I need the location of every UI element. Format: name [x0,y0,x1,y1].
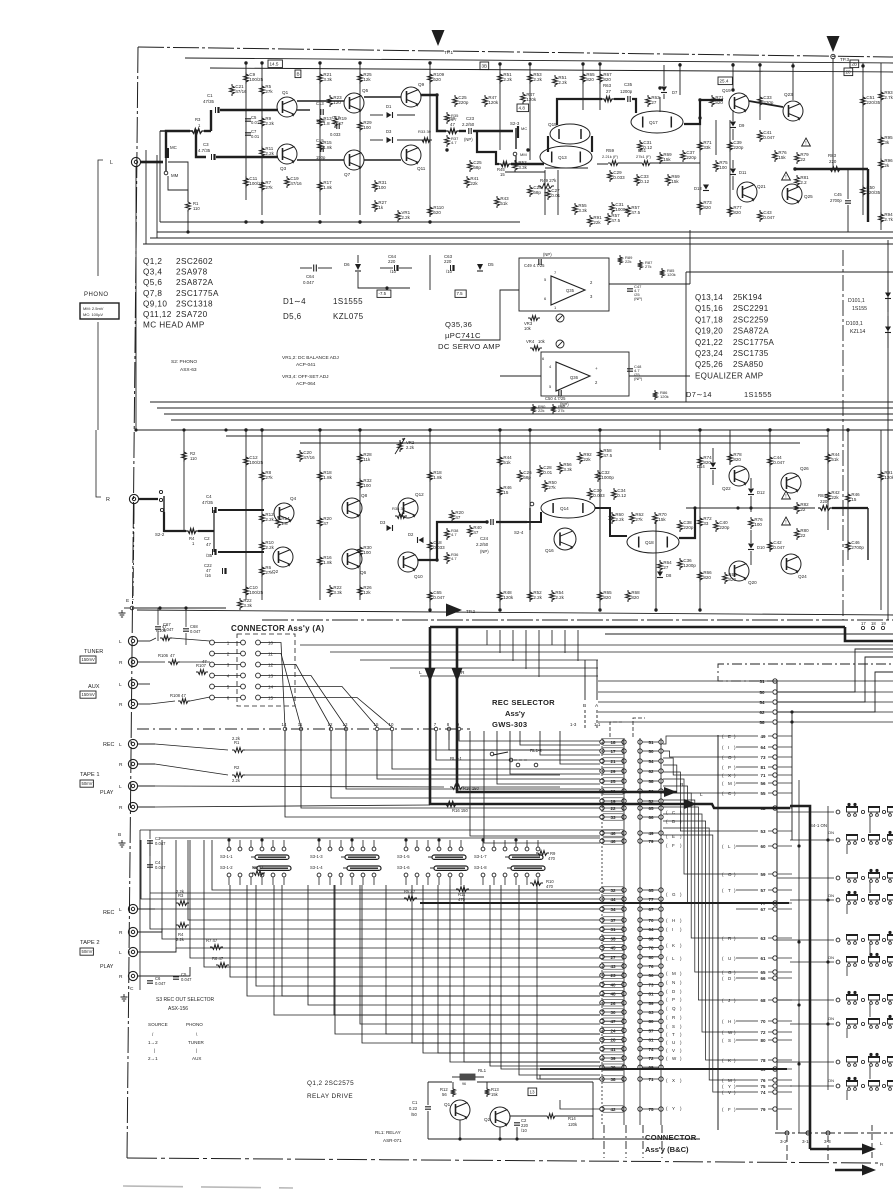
test point TP.1 arrow [432,30,454,55]
svg-text:15: 15 [503,490,509,495]
svg-text:46: 46 [610,831,616,836]
svg-text:S3-1-5: S3-1-5 [397,854,410,859]
assembly box verticals [718,680,777,1130]
resistor R88 [551,404,567,414]
strip C row 64 [722,745,792,750]
text connector B&C [645,1133,697,1154]
capacitor C17 [330,115,341,137]
wire tick to connector row [285,731,600,817]
svg-text:0.22: 0.22 [409,1106,418,1111]
transistor Q26 [781,466,809,493]
text D101 right [848,280,891,312]
diode D11 [730,160,747,190]
svg-text:R16 150: R16 150 [452,808,469,813]
resistor C26 [518,470,533,482]
resistor R11 470 [456,887,469,902]
svg-text:2.7k: 2.7k [884,95,893,100]
strip C row 66 [722,976,792,981]
transistor Q20 [729,561,757,585]
svg-text:100: 100 [378,185,386,190]
switch array row y1000 [836,991,893,1004]
wire [655,520,657,610]
svg-text:Q35,36: Q35,36 [445,320,472,329]
warning triangle mid 1 [782,491,791,500]
resistor R84 inline [818,493,832,510]
ground C [121,986,135,1001]
svg-text:62: 62 [648,769,654,774]
svg-text:50: 50 [759,690,765,695]
capacitor C23 [459,116,475,142]
svg-text:21: 21 [610,759,616,764]
svg-text:D3: D3 [380,520,386,525]
label TUNER [84,649,103,655]
label REC 2 [103,910,114,916]
wire long return [150,401,893,403]
dashed row 729 [137,728,470,730]
svg-text:18: 18 [610,740,616,745]
svg-text:ACP-041: ACP-041 [296,362,316,368]
wire return 649 [777,649,893,692]
resistor R46 [498,485,513,497]
svg-text:R: R [106,497,110,503]
svg-text:19: 19 [610,799,616,804]
connector B pin row 20/53 [600,788,663,794]
svg-text:15k: 15k [671,179,679,184]
svg-text:C64: C64 [306,274,315,279]
chain line TP2 [262,619,893,621]
svg-text:K: K [672,943,675,948]
svg-text:Q19: Q19 [722,88,731,93]
wire thick R drop [457,627,677,792]
text block MC head amp device list [143,257,219,330]
resistor R4 inline [186,529,198,546]
svg-text:7.5: 7.5 [457,291,464,296]
svg-text:29: 29 [610,769,616,774]
svg-text:51k: 51k [831,457,839,462]
svg-text:D2: D2 [408,532,414,537]
wire [862,63,864,215]
capacitor C7 [245,129,260,139]
svg-text:S2-2: S2-2 [155,532,165,537]
resistor R11 [260,146,275,158]
svg-text:3.3k: 3.3k [563,467,572,472]
wire switch to connector row [386,885,600,1034]
wire switch to connector row [150,840,600,929]
wire servo pos rail [429,255,431,290]
wire play L run [155,786,560,787]
connector A dashed box [237,634,295,706]
wire [297,100,344,102]
svg-text:!: ! [805,141,806,147]
wire [297,109,310,111]
svg-text:(NP): (NP) [480,549,489,554]
resistor C65 [428,590,446,602]
svg-text:71: 71 [760,773,766,778]
capacitor C6f [147,976,166,986]
wire [499,63,501,150]
resistor R48 [498,590,514,602]
svg-text:V: V [672,1048,675,1053]
diode D3b [380,520,393,531]
resistor R3 inline [190,117,204,133]
svg-text:R106: R106 [158,653,169,658]
svg-text:Q17,18: Q17,18 [695,315,723,324]
svg-text:27k: 27k [635,517,643,522]
resistor C33b [758,95,774,107]
wire tape2 links [138,909,190,976]
svg-text:Q6: Q6 [360,570,367,575]
svg-text:C45: C45 [834,192,842,197]
junction [698,608,701,611]
resistor R2f [155,764,560,783]
warning triangle mid 2 [782,517,791,526]
resistor R10 [260,540,275,552]
wire thick bus 52 [697,804,790,808]
wire strip link [663,800,736,972]
svg-text:RL1: RL1 [478,1068,487,1073]
resistor R53b [513,160,528,172]
svg-text:70: 70 [648,918,654,923]
junction [435,558,438,561]
strip letter U [666,1040,682,1045]
warning triangle top 2 [782,172,791,181]
capacitor C5 [245,115,260,125]
transistor Q11 [401,145,426,171]
svg-text:D14: D14 [697,464,705,469]
svg-text:100: 100 [363,125,371,130]
connector B pin row 29/62 [600,768,663,774]
svg-text:R63: R63 [603,83,612,88]
resistor R75 [714,160,729,172]
resistor R108 [150,693,210,704]
capacitor C5f [173,972,192,982]
wire play R run [155,804,540,807]
svg-text:0.01: 0.01 [251,120,260,125]
strip P row 51 [598,679,893,684]
svg-text:Q36: Q36 [570,375,579,380]
wire [729,430,731,465]
resistor R12 relay [440,1087,455,1097]
pot VR2 [395,438,415,454]
transistor Q1 [277,90,297,117]
strip C row 68 [722,998,792,1003]
phono jack R [96,430,139,504]
svg-text:0.047: 0.047 [303,280,315,285]
wire long run mid [420,675,598,677]
svg-text:2.2k: 2.2k [265,545,274,550]
resistor C10 [244,585,264,597]
arrow R mid [452,668,466,682]
wire jack R to switch S2-2 [139,498,158,500]
strip letter F [666,843,682,848]
resistor C20 [298,450,316,462]
resistor R16c [444,802,469,813]
svg-text:VR4: VR4 [526,339,535,344]
wire equalizer frame top [686,271,893,273]
svg-text:820: 820 [703,205,711,210]
svg-text:S3-1-4: S3-1-4 [310,865,323,870]
svg-text:3-2: 3-2 [780,1139,787,1144]
svg-text:S: S [728,1038,731,1043]
strip letter V [666,1048,682,1053]
wire switch to connector row [256,885,600,986]
resistor R47b [483,95,499,107]
resistor R5f [404,889,417,900]
wire [729,120,731,215]
svg-text:2.2k: 2.2k [265,517,274,522]
svg-text:2.2k: 2.2k [232,778,241,783]
svg-text:R: R [119,762,123,768]
svg-text:150mV: 150mV [82,692,95,697]
svg-text:1-1: 1-1 [594,722,601,727]
svg-text:1.8k: 1.8k [323,560,332,565]
junction [698,428,701,431]
strip C row 77 [736,901,792,906]
connector B pin row 24/57 [600,1027,663,1033]
resistor R8f [212,956,229,967]
diode D2 [408,532,424,543]
svg-text:P: P [672,997,675,1002]
arrow L mid [419,668,436,682]
svg-text:Q7,8: Q7,8 [143,289,162,298]
junction [793,167,796,170]
capacitor C22 [204,563,227,578]
transistor Q12 [398,492,424,518]
connector B col rail 4 [660,738,662,1125]
svg-text:Q3: Q3 [280,166,287,171]
svg-text:2SC2259: 2SC2259 [733,315,769,324]
svg-text:71: 71 [648,1077,654,1082]
svg-text:120k: 120k [503,595,514,600]
resistor R7 [260,180,274,192]
resistor C34 [612,488,627,500]
svg-text:51: 51 [648,740,654,745]
resistor R21 [318,72,333,84]
capacitor C2 relay [514,1118,529,1133]
svg-text:41: 41 [610,1047,616,1052]
relay contact RL1-1 [450,752,528,762]
wire tick to connector row [436,731,600,760]
diode D12 [748,478,765,512]
resistor R4f [176,923,189,942]
svg-text:C50 4.7/25: C50 4.7/25 [545,396,566,401]
svg-text:3.3k: 3.3k [243,603,252,608]
junction [260,220,263,223]
svg-text:X: X [672,1078,675,1083]
svg-text:Q11: Q11 [417,166,426,171]
svg-text:H: H [728,1019,731,1024]
svg-text:U: U [728,956,731,961]
pot VR4 [526,339,564,350]
switch array row y1024 [836,1015,893,1029]
svg-text:61: 61 [760,956,766,961]
svg-text:60: 60 [648,955,654,960]
resistor R65b [598,590,613,602]
wire thick output R83 [793,167,868,170]
diode D7 [661,65,678,99]
resistor R38 [445,528,460,540]
pot VR3 [524,314,564,331]
wire vertical drop right [564,630,566,653]
wire [659,97,661,112]
transistor Q1 relay [444,1100,470,1120]
svg-text:47: 47 [202,659,207,664]
resistor R91 [879,470,893,482]
svg-text:24: 24 [610,1028,616,1033]
strip letter I [666,927,682,932]
strip letter R [666,1015,682,1020]
transistor Q3 [277,144,297,171]
resistor R76b [773,150,788,162]
relay contact RL1-2 [516,748,542,767]
capacitor C64e [380,254,412,274]
wire thick phono R path [139,499,186,531]
wire [364,159,401,161]
wire switch to connector row [212,840,600,890]
svg-text:Q1: Q1 [282,90,289,95]
strip letter D [666,819,682,824]
svg-text:Q25,26: Q25,26 [695,360,723,369]
resistor R89 [618,255,634,265]
wire thick C24 to S2-4 [496,521,527,523]
svg-text:MC: 100µV: MC: 100µV [83,312,103,317]
wire [529,430,531,600]
wire switch pin drop [501,885,600,1069]
transistor Q5 [344,88,369,113]
wire switch to connector row [176,840,600,948]
svg-text:R84: R84 [818,493,827,498]
wire jack L to MC switch [141,161,163,163]
svg-text:Q9,10: Q9,10 [143,299,167,308]
svg-text:C1: C1 [412,1100,418,1105]
connector A pin row 4 [210,673,276,678]
svg-text:22: 22 [800,157,806,162]
resistor R78 [728,452,743,464]
svg-text:S3-1-6: S3-1-6 [397,865,410,870]
svg-text:ASR-071: ASR-071 [383,1138,402,1143]
rail bottom 225 [160,221,520,223]
wire upper run [560,731,600,764]
svg-text:Q15,16: Q15,16 [695,304,723,313]
resistor C28 [538,465,553,477]
resistor R62 [630,512,645,524]
svg-text:27k: 27k [548,485,556,490]
switch S2-4 [514,502,534,535]
junction [698,98,701,101]
wire switch pin drop [247,885,600,996]
text source table [148,1022,205,1061]
svg-text:57: 57 [760,888,766,893]
resistor R72 [698,516,713,528]
resistor C30 [588,488,606,500]
svg-text:73: 73 [760,755,766,760]
svg-text:2.2k: 2.2k [265,151,274,156]
junction [528,428,531,431]
svg-text:2.2/50: 2.2/50 [476,542,489,547]
page edge mark bottom [123,1186,293,1188]
svg-text:74: 74 [648,1047,654,1052]
svg-text:23: 23 [610,973,616,978]
wire thick output2 [832,508,868,560]
svg-text:12k: 12k [363,590,371,595]
svg-text:PHONO: PHONO [84,292,109,298]
svg-text:10k: 10k [524,326,532,331]
strip letter G [666,892,682,897]
strip letter X [666,1078,682,1083]
svg-text:33k: 33k [703,145,711,150]
svg-text:S3-1-2: S3-1-2 [220,865,233,870]
svg-text:68p: 68p [473,165,481,170]
svg-text:D13: D13 [694,186,702,191]
wire connector A fan [276,643,285,728]
svg-text:22k: 22k [470,181,478,186]
svg-text:120k: 120k [667,272,676,277]
box 7.5 [455,290,466,297]
jack tape2 L [119,904,155,913]
wire switch pin drop [423,885,600,1053]
wire jack R stub [133,504,135,514]
svg-text:620: 620 [433,210,441,215]
svg-text:28: 28 [846,69,852,74]
wire long run mid [360,659,598,661]
resistor R91 [588,215,603,227]
wire [599,430,601,610]
transistor Q10 [398,552,423,579]
svg-text:R83: R83 [828,153,837,158]
svg-text:3-1: 3-1 [802,1139,809,1144]
svg-text:D1: D1 [386,104,392,109]
svg-text:2.7k: 2.7k [884,217,893,222]
resistor R60 [610,512,625,524]
wire TP3 drop [832,59,834,169]
diode D1 [370,104,415,118]
switch S2-1 MC contact [164,145,178,178]
svg-text:50mV: 50mV [82,949,93,954]
wire gap vertical 1 [145,150,147,244]
capacitor C68 [183,608,201,645]
resistor C29 [608,170,626,182]
svg-text:1200p: 1200p [683,563,696,568]
labels 3-2 3-1 3-3 [780,1139,831,1144]
connector B pin row 31/64 [600,926,663,932]
svg-text:49: 49 [648,831,654,836]
strip letter P [666,997,682,1002]
svg-text:2.2k: 2.2k [401,215,410,220]
svg-text:3.3k: 3.3k [578,208,587,213]
svg-text:2.2k: 2.2k [232,736,241,741]
wire thick L drop [430,627,697,804]
resistor R5 [260,84,274,96]
wire [880,430,882,610]
strip C row 74 [722,1090,792,1095]
svg-text:AUX: AUX [88,684,100,690]
svg-text:120k: 120k [526,97,537,102]
svg-text:820: 820 [603,595,611,600]
svg-text:+: + [595,366,598,371]
svg-text:220: 220 [820,499,828,504]
resistor R22b [238,598,253,610]
svg-text:53: 53 [648,789,654,794]
resistor R69 [666,174,681,186]
wire horizontal return 1 [157,230,893,233]
connector A pin row 3 [210,662,276,667]
svg-text:47/35: 47/35 [202,500,214,505]
capacitor C4f [147,860,166,870]
svg-text:25.4: 25.4 [720,78,729,83]
strip C row 65 [722,970,792,975]
jack tape2 R [119,971,155,980]
svg-text:100/25: 100/25 [249,77,263,82]
